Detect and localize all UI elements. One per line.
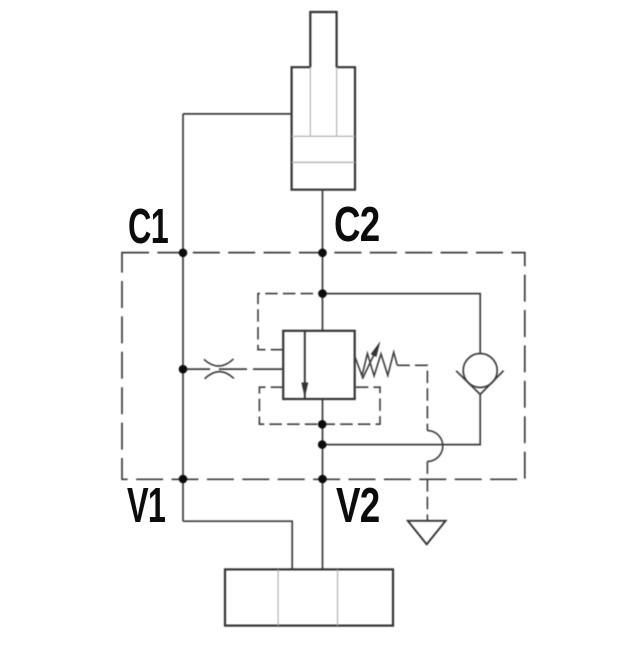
label V2 (336, 478, 379, 534)
spring (355, 352, 398, 376)
wire C2/V2 line lower (322, 399, 324, 569)
line hop over V2-check line (427, 431, 442, 462)
wire check valve branch bottom (323, 394, 481, 444)
cylinder rod (310, 12, 336, 67)
counterbalance valve body box (283, 331, 355, 399)
cylinder piston lines (light) (292, 136, 355, 162)
node orifice junction (179, 365, 188, 374)
node check branch junction (318, 440, 327, 449)
wire orifice line to valve (183, 368, 283, 370)
cylinder rod inside (light) (310, 67, 336, 136)
label C1 (128, 199, 168, 255)
block divider lines (light) (278, 569, 337, 625)
tank symbol triangle (408, 521, 446, 545)
drain dashed line to tank (426, 461, 428, 520)
flow arrow in valve box (304, 331, 306, 399)
node pilot loop junction (318, 420, 327, 429)
pilot loop dashed (bottom) (259, 387, 380, 424)
node C2 junction (318, 249, 327, 258)
wire C1 port to cylinder (183, 113, 292, 115)
spring adjust arrow (362, 354, 374, 379)
spring chamber dashed line (397, 365, 427, 430)
wire C1/V1 riser (182, 114, 184, 521)
node V1 junction (179, 475, 188, 484)
pilot line dashed (top left to C2) (258, 294, 320, 350)
node C1 junction (179, 249, 188, 258)
label V1 (127, 478, 165, 534)
valve envelope (dashed boundary) (122, 253, 525, 480)
label C2 (334, 197, 379, 253)
node V2 junction (318, 475, 327, 484)
wire check valve branch top (323, 294, 481, 354)
wire V1 elbow to block (183, 521, 292, 569)
bottom block body (225, 569, 393, 625)
orifice restrictor arcs (204, 359, 234, 379)
wire C2/V2 line upper (322, 190, 324, 331)
check valve ball (463, 354, 497, 388)
check valve seat (456, 371, 504, 395)
cylinder body (292, 67, 355, 190)
node pilot-C2 junction (318, 289, 327, 298)
